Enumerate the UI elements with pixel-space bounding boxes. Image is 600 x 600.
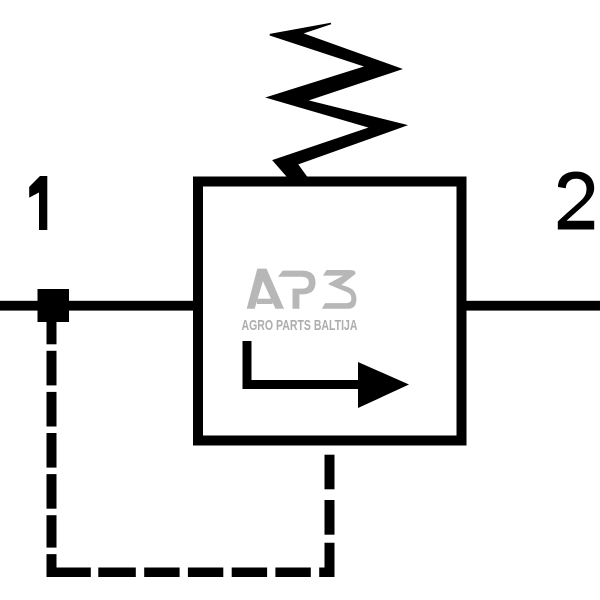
port label 2 xyxy=(558,172,594,230)
flow arrow head xyxy=(358,362,409,408)
wire: port 2 line xyxy=(467,301,600,311)
pilot line bottom-right corner (dashed) xyxy=(319,543,334,577)
pilot line bottom horizontal (dashed) xyxy=(98,568,310,578)
flow arrow shaft horizontal xyxy=(243,380,363,389)
APB logo text xyxy=(247,269,357,309)
flow arrow shaft vertical xyxy=(243,341,252,389)
port label 1 xyxy=(29,176,47,230)
valve body box xyxy=(198,182,462,441)
pilot line left vertical (dashed) xyxy=(47,322,57,548)
pilot line bottom-left corner (dashed) xyxy=(47,554,91,577)
pilot line right vertical (dashed) xyxy=(325,455,335,535)
wire: port 1 line xyxy=(0,301,193,311)
svg-text:AGRO PARTS BALTIJA: AGRO PARTS BALTIJA xyxy=(242,317,358,334)
spring xyxy=(268,24,405,185)
node junction square xyxy=(38,289,70,322)
